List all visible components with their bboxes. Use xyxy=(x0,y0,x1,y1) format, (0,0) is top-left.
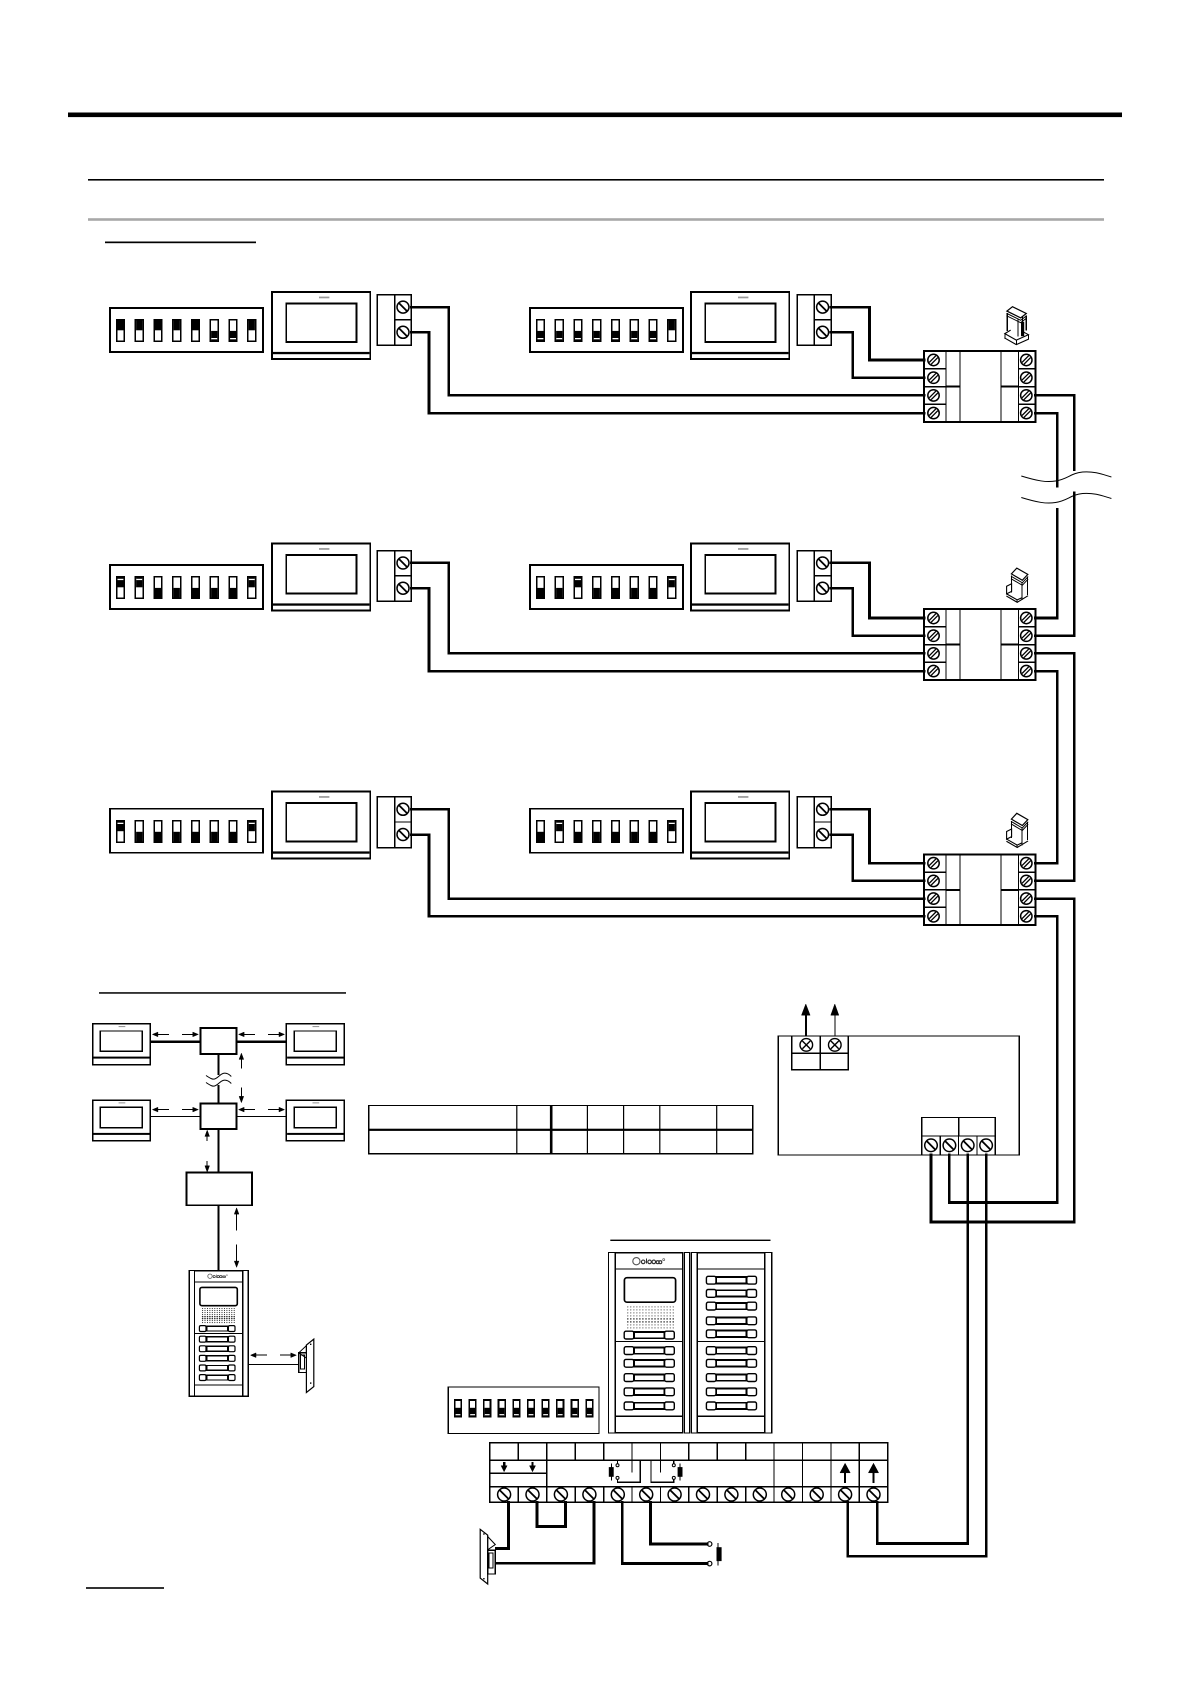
wire strip-4 to strike xyxy=(497,1502,594,1563)
monitor M3A xyxy=(272,792,370,859)
riser wire D1-4 to D2-1 (inner, upper) xyxy=(1035,413,1057,486)
termination jumper J2 (closed) xyxy=(1007,568,1028,602)
dip-switch S4 (entrance panel address) xyxy=(448,1387,599,1434)
overview monitor C xyxy=(93,1100,151,1141)
overview door-release arrows xyxy=(251,1353,297,1358)
riser wire D2-3 to D3-2 (outer) xyxy=(1035,653,1074,881)
termination jumper J3 (closed) xyxy=(1007,813,1028,847)
overview distributor lower xyxy=(200,1104,236,1129)
overview updown arrows 2 up xyxy=(205,1130,210,1141)
dip-switch S2A (left monitor address) xyxy=(110,565,263,609)
terminal block T3A xyxy=(377,797,411,848)
overview riser segment 3 xyxy=(218,1129,220,1173)
entrance panel module 2 (call buttons) xyxy=(692,1253,772,1433)
floor distributor D1 xyxy=(924,351,1035,422)
dip-switch S3A (left monitor address) xyxy=(110,809,263,853)
wire PSU-3 to strip terminal 14 xyxy=(877,1155,968,1544)
jumper loop strip-2 to strip-3 xyxy=(537,1502,565,1526)
title rule thick xyxy=(68,113,1122,118)
overview updown arrows 3 down xyxy=(234,1245,239,1268)
wire T3B bottom to distributor D3 terminal 2 xyxy=(831,835,924,881)
riser wire to D2-2 (outer, lower) xyxy=(1035,493,1074,636)
monitor M2B xyxy=(691,544,789,611)
overview break wave upper xyxy=(206,1073,231,1079)
section heading underline xyxy=(105,242,256,244)
riser wire to D2-1 (inner, lower) xyxy=(1035,510,1057,619)
wire strip-5 to door button xyxy=(622,1502,707,1563)
overview updown arrows 1 up xyxy=(239,1053,244,1068)
overview entrance panel xyxy=(189,1271,248,1397)
overview electric strike xyxy=(299,1339,314,1392)
overview bus line C xyxy=(150,1116,200,1118)
cable break wave lower xyxy=(1021,493,1111,503)
overview updown arrows 2 down xyxy=(205,1161,210,1172)
dip-switch S2B (right monitor address) xyxy=(530,565,683,609)
overview heading underline xyxy=(99,992,346,994)
terminal block T3B xyxy=(797,797,831,848)
overview updown arrows 3 up xyxy=(234,1208,239,1231)
cable break wave upper xyxy=(1021,472,1111,482)
wire T2B bottom to distributor D2 terminal 2 xyxy=(831,588,924,635)
overview break wave lower xyxy=(206,1080,231,1086)
wire T2A top to distributor D2 terminal 3 xyxy=(411,563,924,654)
strip internal contact symbol left xyxy=(609,1460,641,1482)
door-release push button xyxy=(707,1542,721,1566)
wire T1A top to distributor D1 terminal 3 xyxy=(411,307,924,395)
entrance panel overline xyxy=(610,1240,770,1241)
strip arrow down t2 xyxy=(530,1462,536,1472)
overview bus line A xyxy=(150,1040,200,1043)
header rule thin xyxy=(88,179,1104,181)
wire PSU-4 to strip terminal 13 xyxy=(848,1155,986,1556)
strip internal contact symbol right xyxy=(651,1460,683,1482)
termination jumper J1 (open, on one pin) xyxy=(1005,307,1029,345)
header rule gray xyxy=(88,218,1104,221)
wire T2A bottom to distributor D2 terminal 4 xyxy=(411,588,924,671)
overview door-release line xyxy=(248,1363,299,1365)
strip arrow up t14 xyxy=(868,1463,878,1483)
riser wire D3-3 to power unit (outer) xyxy=(931,899,1074,1222)
monitor M1B xyxy=(691,292,789,359)
wire T3A top to distributor D3 terminal 3 xyxy=(411,809,924,898)
entrance panel terminal strip xyxy=(490,1443,888,1503)
mains arrow L (thick) xyxy=(802,1004,811,1036)
overview arrows middle row xyxy=(152,1107,284,1112)
dip-switch S3B (right monitor address) xyxy=(530,809,683,853)
monitor M2A xyxy=(272,544,370,611)
dip-switch S1A (left monitor address) xyxy=(110,308,263,352)
wire strip-1 to strike xyxy=(497,1502,509,1548)
floor distributor D2 xyxy=(924,609,1035,680)
wire strip-6 to door button xyxy=(651,1502,708,1544)
dip-switch S1B (right monitor address) xyxy=(530,308,683,352)
monitor M1A xyxy=(272,292,370,359)
overview riser segment 4 xyxy=(218,1205,220,1270)
overview updown arrows 1 down xyxy=(239,1087,244,1102)
riser wire D1-3 to D2-2 (outer, upper) xyxy=(1035,395,1074,469)
wire T2B top to distributor D2 terminal 1 xyxy=(831,563,924,618)
riser wire D2-4 to D3-1 (inner) xyxy=(1035,671,1057,863)
overview monitor D xyxy=(286,1100,344,1141)
entrance panel module 1 (audio/video) xyxy=(608,1253,689,1433)
overview riser segment 1 xyxy=(218,1054,220,1075)
mains arrow N (thin) xyxy=(831,1004,839,1036)
wire T3A bottom to distributor D3 terminal 4 xyxy=(411,835,924,917)
overview distributor upper xyxy=(200,1028,236,1054)
overview arrows upper row xyxy=(152,1032,284,1037)
PSU bus terminal block xyxy=(922,1118,996,1155)
terminal block T2A xyxy=(377,551,411,602)
strip arrow down t1 xyxy=(501,1462,507,1472)
overview power supply box xyxy=(186,1172,252,1205)
riser wire D3-4 to power unit (inner) xyxy=(949,916,1057,1202)
monitor M3B xyxy=(691,792,789,859)
electric strike xyxy=(480,1529,495,1584)
wire T1B bottom to distributor D1 terminal 2 xyxy=(831,332,924,377)
overview bus line B xyxy=(237,1040,287,1043)
bottom heading underline xyxy=(86,1587,164,1589)
strip arrow up t13 xyxy=(840,1463,850,1483)
terminal block T1B xyxy=(797,295,831,346)
terminal block T2B xyxy=(797,551,831,602)
floor distributor D3 xyxy=(924,854,1035,925)
overview bus line D xyxy=(237,1116,287,1118)
specification table xyxy=(369,1106,753,1154)
terminal block T1A xyxy=(377,295,411,346)
PSU mains terminal block xyxy=(792,1036,848,1070)
power-control unit PSU box xyxy=(778,1036,1019,1155)
overview monitor A xyxy=(93,1024,151,1065)
overview riser segment 2 xyxy=(218,1085,220,1104)
wire T1A bottom to distributor D1 terminal 4 xyxy=(411,332,924,413)
overview monitor B xyxy=(286,1024,344,1065)
wire T3B top to distributor D3 terminal 1 xyxy=(831,809,924,863)
wire T1B top to distributor D1 terminal 1 xyxy=(831,307,924,360)
